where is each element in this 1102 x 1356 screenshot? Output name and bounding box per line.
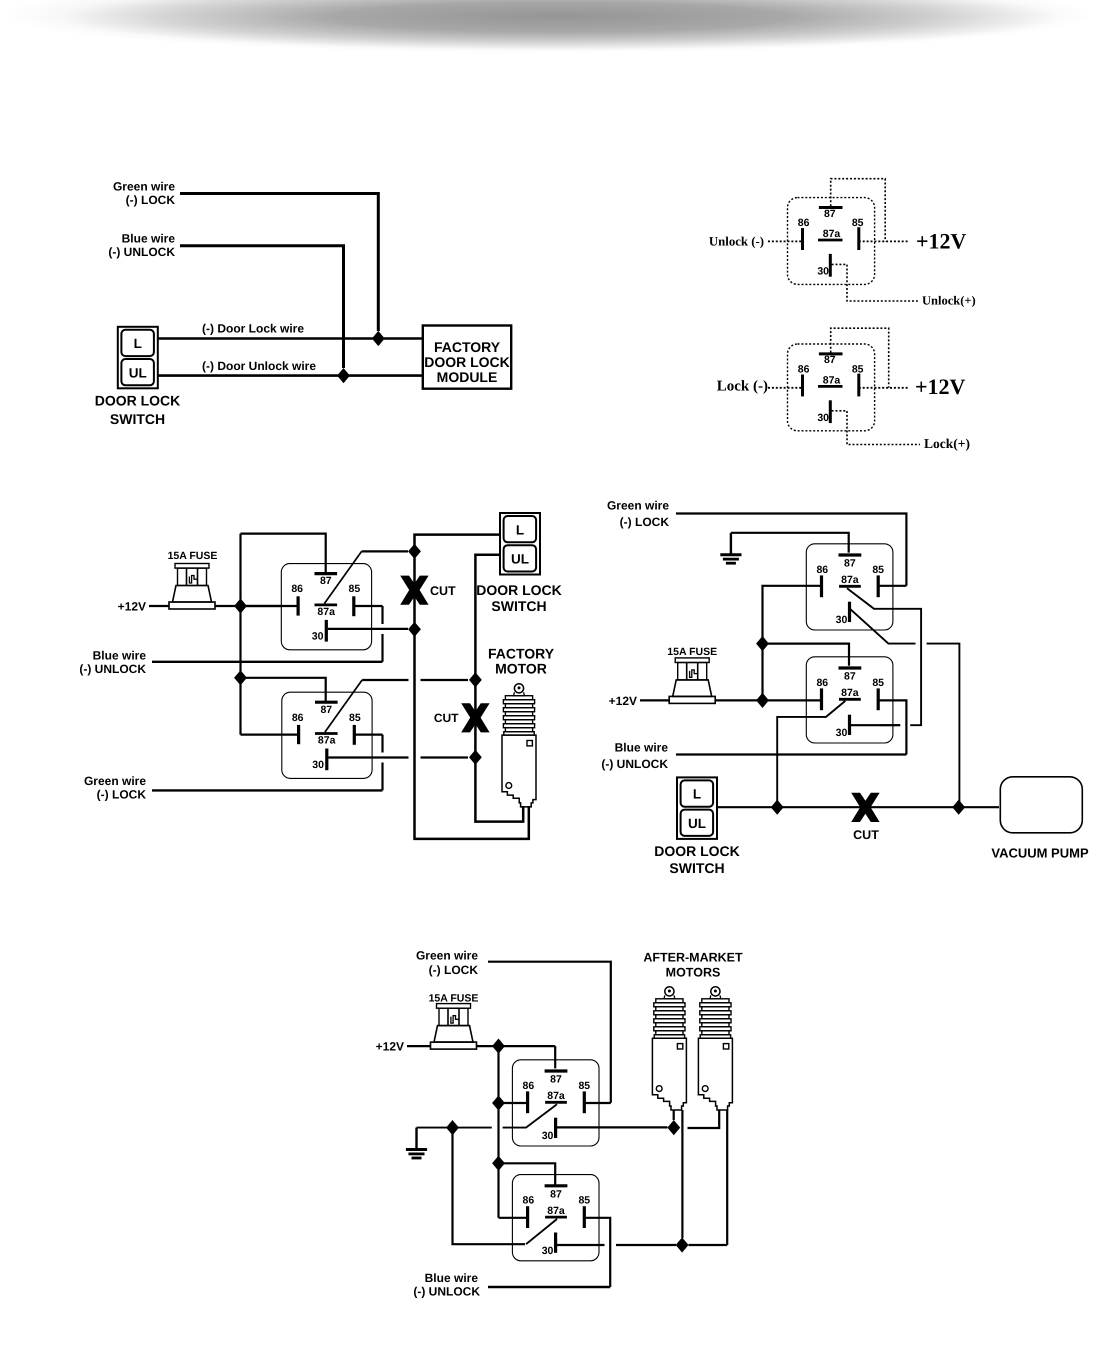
svg-text:87: 87 xyxy=(824,354,836,366)
svg-text:85: 85 xyxy=(852,363,864,375)
svg-text:DOOR LOCK: DOOR LOCK xyxy=(654,843,740,859)
svg-text:Green wire: Green wire xyxy=(113,180,175,194)
svg-text:Unlock(+): Unlock(+) xyxy=(922,294,976,308)
svg-text:(-) UNLOCK: (-) UNLOCK xyxy=(601,757,668,771)
svg-text:+12V: +12V xyxy=(609,694,637,708)
svg-text:(-) LOCK: (-) LOCK xyxy=(620,515,670,529)
svg-text:86: 86 xyxy=(798,363,810,375)
svg-text:(-) LOCK: (-) LOCK xyxy=(126,193,176,207)
svg-text:(-) LOCK: (-) LOCK xyxy=(97,788,147,802)
svg-text:(-) LOCK: (-) LOCK xyxy=(429,963,479,977)
svg-text:30: 30 xyxy=(817,266,829,278)
svg-text:(-) UNLOCK: (-) UNLOCK xyxy=(79,662,146,676)
svg-text:+12V: +12V xyxy=(916,229,967,254)
svg-text:30: 30 xyxy=(817,412,829,424)
svg-text:MODULE: MODULE xyxy=(437,369,498,385)
svg-text:87a: 87a xyxy=(823,228,841,240)
svg-text:MOTOR: MOTOR xyxy=(495,661,547,677)
svg-text:Lock(+): Lock(+) xyxy=(924,436,970,451)
svg-text:Green wire: Green wire xyxy=(84,774,146,788)
svg-text:15A FUSE: 15A FUSE xyxy=(667,646,717,658)
svg-text:DOOR LOCK: DOOR LOCK xyxy=(424,354,510,370)
svg-text:Lock (-): Lock (-) xyxy=(717,379,768,395)
svg-text:Blue wire: Blue wire xyxy=(122,232,176,246)
svg-text:Green wire: Green wire xyxy=(416,949,478,963)
svg-text:15A FUSE: 15A FUSE xyxy=(429,993,479,1005)
svg-text:(-) UNLOCK: (-) UNLOCK xyxy=(413,1285,480,1299)
svg-text:Green wire: Green wire xyxy=(607,499,669,513)
svg-text:86: 86 xyxy=(798,217,810,229)
svg-text:(-) UNLOCK: (-) UNLOCK xyxy=(108,245,175,259)
svg-text:DOOR LOCK: DOOR LOCK xyxy=(95,393,181,409)
svg-text:DOOR LOCK: DOOR LOCK xyxy=(476,582,562,598)
svg-text:87: 87 xyxy=(824,208,836,220)
svg-text:SWITCH: SWITCH xyxy=(491,598,546,614)
svg-text:CUT: CUT xyxy=(434,711,459,725)
svg-text:SWITCH: SWITCH xyxy=(110,411,165,427)
svg-text:AFTER-MARKET: AFTER-MARKET xyxy=(643,951,743,965)
svg-text:FACTORY: FACTORY xyxy=(434,339,501,355)
svg-text:15A FUSE: 15A FUSE xyxy=(168,550,218,562)
svg-text:Unlock (-): Unlock (-) xyxy=(709,235,764,249)
svg-text:85: 85 xyxy=(852,217,864,229)
svg-text:(-) Door Unlock wire: (-) Door Unlock wire xyxy=(202,359,316,373)
svg-text:Blue wire: Blue wire xyxy=(425,1271,479,1285)
svg-text:+12V: +12V xyxy=(118,600,146,614)
svg-text:SWITCH: SWITCH xyxy=(669,860,724,876)
svg-text:CUT: CUT xyxy=(430,584,456,598)
svg-text:VACUUM PUMP: VACUUM PUMP xyxy=(991,846,1089,861)
svg-text:Blue wire: Blue wire xyxy=(93,649,147,663)
svg-text:+12V: +12V xyxy=(915,374,966,399)
svg-text:(-) Door Lock wire: (-) Door Lock wire xyxy=(202,322,304,336)
svg-text:+12V: +12V xyxy=(376,1040,404,1054)
svg-text:FACTORY: FACTORY xyxy=(488,646,555,662)
svg-text:Blue wire: Blue wire xyxy=(615,741,669,755)
svg-text:CUT: CUT xyxy=(853,828,879,842)
svg-text:87a: 87a xyxy=(823,374,841,386)
svg-text:MOTORS: MOTORS xyxy=(666,966,721,980)
